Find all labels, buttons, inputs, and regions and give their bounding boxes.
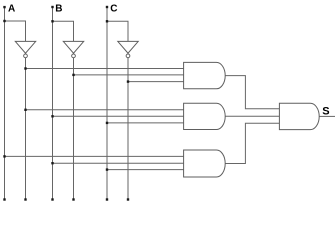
junction C AND3 — [106, 168, 108, 170]
wire NOT-C vertical — [127, 58, 129, 200]
junction A AND3 — [3, 155, 5, 157]
wire branch B to inverter — [53, 21, 74, 41]
AND gate U5 — [184, 103, 226, 129]
wire output S — [319, 115, 335, 117]
terminal dot bottom notA — [24, 198, 26, 200]
junction A branch — [3, 20, 5, 22]
terminal dot bottom notB — [72, 198, 74, 200]
terminal dot bottom B — [51, 198, 53, 200]
terminal dot bottom A — [3, 198, 5, 200]
inverter U1 (NOT A) — [15, 41, 35, 53]
wire AND1 input notB — [74, 74, 184, 76]
wire AND1 input notA — [26, 68, 184, 70]
wire AND1 input notC — [128, 81, 184, 83]
wire AND3 output route — [225, 123, 279, 163]
junction B branch — [51, 20, 53, 22]
terminal dot input C — [106, 6, 108, 8]
wire B vertical — [52, 7, 54, 200]
AND gate U6 — [184, 150, 226, 177]
svg-text:S: S — [322, 106, 329, 118]
terminal dot bottom notC — [127, 198, 129, 200]
wire AND2 input C — [107, 122, 184, 124]
junction notA AND2 — [24, 109, 26, 111]
junction notA AND1 — [24, 67, 26, 69]
svg-text:A: A — [8, 4, 15, 15]
wire branch A to inverter — [5, 21, 26, 41]
wire A vertical — [4, 7, 6, 200]
wire AND1 output route — [225, 76, 279, 109]
inverter U2 (NOT B) — [63, 41, 83, 53]
svg-text:B: B — [55, 4, 62, 15]
OR/output gate U7 — [279, 103, 319, 129]
wire AND2 input B — [53, 115, 184, 117]
terminal dot input A — [3, 6, 5, 8]
svg-text:C: C — [110, 4, 117, 15]
AND gate U4 — [184, 62, 226, 88]
wire AND2 input notA — [26, 109, 184, 111]
wire branch C to inverter — [107, 21, 128, 41]
wire AND3 input C — [107, 169, 184, 171]
junction notC AND1 — [127, 80, 129, 82]
wire C vertical — [106, 7, 108, 200]
junction C branch — [106, 20, 108, 22]
wire AND2 output — [225, 115, 279, 117]
junction C AND2 — [106, 122, 108, 124]
junction notB AND1 — [72, 74, 74, 76]
junction B AND2 — [51, 115, 53, 117]
wire AND3 input A — [5, 155, 184, 157]
wire AND3 input B — [53, 162, 184, 164]
wire NOT-A vertical — [25, 58, 27, 200]
junction B AND3 — [51, 162, 53, 164]
inverter U3 (NOT C) — [118, 41, 138, 53]
wire NOT-B vertical — [73, 58, 75, 200]
terminal dot input B — [51, 6, 53, 8]
terminal dot bottom C — [106, 198, 108, 200]
